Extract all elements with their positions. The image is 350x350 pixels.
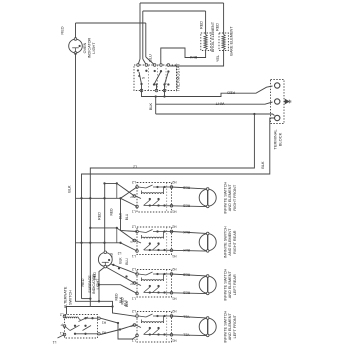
wires fan into RIGHT FRONT [105, 183, 135, 196]
svg-text:L2: L2 [118, 251, 122, 255]
pilot coil of RIGHT REAR switch [142, 237, 164, 238]
svg-text:BLK: BLK [183, 230, 190, 234]
terminals H2 H1 of LEFT REAR switch [170, 273, 173, 276]
infinite switch RIGHT FRONT [137, 183, 172, 213]
svg-text:L2: L2 [132, 309, 136, 313]
terminals H2 H1 of LEFT FRONT switch [170, 315, 173, 318]
terminal block [271, 80, 285, 124]
svg-text:BLK: BLK [261, 161, 265, 169]
terminal block terminals [275, 83, 280, 88]
wires BLK switch to element [172, 232, 207, 234]
svg-text:L1: L1 [60, 331, 64, 335]
svg-text:BLU: BLU [125, 213, 129, 220]
oven indicator light [69, 39, 83, 53]
svg-text:LEFT FRONT: LEFT FRONT [233, 314, 237, 338]
svg-text:H1: H1 [172, 339, 176, 343]
wires YEL switch to element [172, 316, 207, 318]
svg-text:RED: RED [182, 290, 190, 294]
svg-text:BROIL ELEMENT: BROIL ELEMENT [211, 21, 215, 52]
svg-text:L2: L2 [133, 165, 137, 169]
svg-text:INFINITE SWITCH: INFINITE SWITCH [223, 311, 227, 343]
svg-text:YEL: YEL [183, 332, 190, 336]
svg-text:RED: RED [110, 208, 114, 216]
svg-text:L1: L1 [132, 254, 136, 258]
svg-text:WHT: WHT [215, 102, 224, 106]
svg-text:BLU: BLU [125, 258, 129, 265]
switch contacts of RIGHT REAR [139, 232, 147, 233]
svg-text:L2: L2 [60, 313, 64, 317]
svg-text:RED: RED [182, 186, 190, 190]
svg-text:ALTERNATE: ALTERNATE [64, 286, 68, 308]
pilot coil of LEFT REAR switch [142, 280, 164, 281]
infinite switch LEFT REAR [137, 270, 172, 298]
wire bake to thermostat YEL [168, 50, 223, 67]
svg-text:RED: RED [227, 90, 235, 94]
svg-text:BLK: BLK [149, 102, 153, 110]
svg-text:YEL: YEL [183, 315, 190, 319]
surface element LEFT REAR [199, 276, 216, 293]
svg-text:L1: L1 [132, 210, 136, 214]
terminals L2 P L1 of RIGHT REAR switch [136, 230, 139, 233]
svg-text:H1: H1 [102, 321, 106, 325]
wires RED switch to element [172, 187, 207, 189]
svg-text:BLOCK: BLOCK [278, 132, 283, 146]
svg-text:H1: H1 [172, 297, 176, 301]
wire surface light down to bank4 area RED [99, 267, 105, 302]
wire top outer loop to bake element [140, 2, 224, 4]
svg-text:S: S [142, 76, 146, 79]
wires fan into RIGHT REAR [90, 228, 134, 241]
svg-text:RED: RED [182, 203, 190, 207]
wires RED switch to element [172, 274, 207, 276]
svg-text:OVEN: OVEN [83, 42, 87, 53]
surface element LEFT FRONT [199, 318, 216, 335]
surface element RIGHT REAR [199, 234, 216, 251]
svg-text:H2: H2 [172, 224, 176, 228]
wire RED thermostat to terminal block top [142, 86, 273, 97]
svg-text:RED: RED [182, 273, 190, 277]
svg-text:BLK: BLK [125, 300, 129, 307]
svg-text:P: P [130, 195, 133, 199]
wire lower bus via right side [156, 114, 275, 116]
wire BLK terminal block bottom to left bus [82, 118, 278, 299]
infinite switch RIGHT REAR [137, 227, 172, 255]
svg-text:RED: RED [115, 293, 119, 301]
svg-text:RIGHT FRONT: RIGHT FRONT [233, 184, 237, 211]
wire fan into thermostat top terminals [138, 59, 140, 65]
terminals H2 H1 of RIGHT FRONT switch [170, 186, 173, 189]
wire broil to thermostat BLU [161, 48, 206, 65]
terminals L2 P L1 of RIGHT FRONT switch [136, 186, 139, 189]
svg-text:INFINITE SWITCH: INFINITE SWITCH [223, 269, 227, 301]
wire oven indicator light to thermostat [76, 22, 146, 24]
svg-text:H2: H2 [172, 309, 176, 313]
wires fan into LEFT REAR [110, 264, 137, 275]
svg-text:P: P [60, 323, 63, 327]
terminals L2 P L1 of LEFT FRONT switch [136, 315, 139, 318]
svg-text:BLK: BLK [119, 257, 123, 264]
pilot coil of RIGHT FRONT switch [142, 193, 164, 194]
svg-text:BLK: BLK [67, 185, 71, 193]
surface indicator light [98, 253, 112, 267]
switch contacts of LEFT REAR [139, 274, 147, 275]
wires fan into LEFT FRONT [101, 318, 138, 339]
svg-text:BLU: BLU [190, 55, 198, 59]
svg-text:RED: RED [98, 212, 102, 220]
svg-text:INFINITE SWITCH: INFINITE SWITCH [223, 226, 227, 258]
svg-text:BLU: BLU [149, 54, 153, 62]
svg-text:L1: L1 [53, 340, 57, 344]
svg-text:LIGHT: LIGHT [92, 42, 96, 54]
infinite switch LEFT FRONT [137, 312, 172, 343]
svg-text:H2: H2 [102, 331, 106, 335]
switch contacts of RIGHT FRONT [139, 187, 147, 188]
svg-text:BAKE ELEMENT: BAKE ELEMENT [229, 26, 233, 56]
thermostat switch arms [139, 72, 142, 84]
wire from bank1 row down to RIGHT REAR L2 [121, 198, 138, 231]
svg-text:L2: L2 [132, 267, 136, 271]
svg-text:AND ELEMENT: AND ELEMENT [228, 313, 232, 341]
pilot coil of LEFT FRONT switch [142, 322, 164, 323]
thermostat [134, 65, 177, 91]
terminals L2 P L1 of LEFT REAR switch [136, 273, 139, 276]
svg-text:RIGHT REAR: RIGHT REAR [233, 230, 237, 254]
svg-text:H1: H1 [172, 254, 176, 258]
terminals H2 H1 of RIGHT REAR switch [170, 230, 173, 233]
ground symbol [284, 101, 285, 103]
staircase wire to alternate switch L2 [82, 298, 91, 300]
svg-text:L2: L2 [132, 224, 136, 228]
svg-text:INFINITE SWITCH: INFINITE SWITCH [223, 182, 227, 214]
svg-text:H1: H1 [172, 210, 176, 214]
wire alt switch L1 stub [58, 335, 65, 339]
svg-text:H2: H2 [172, 267, 176, 271]
bus RED down to surface light [104, 183, 106, 251]
switch contacts of LEFT FRONT [139, 316, 147, 317]
svg-text:AND ELEMENT: AND ELEMENT [228, 184, 232, 212]
svg-text:RED: RED [216, 23, 220, 31]
svg-text:RED: RED [60, 26, 65, 34]
wire WHT to terminal block middle [155, 97, 157, 115]
svg-text:RED: RED [121, 297, 125, 305]
wire top inner loop to broil element [143, 10, 206, 12]
surface element RIGHT FRONT [199, 189, 216, 206]
svg-text:LIGHT: LIGHT [96, 278, 100, 290]
svg-text:INDICATOR: INDICATOR [88, 37, 92, 58]
thermostat contact junctions [137, 69, 139, 71]
svg-text:RED: RED [199, 21, 203, 29]
alternate switch coil [67, 317, 79, 318]
svg-text:AND ELEMENT: AND ELEMENT [228, 228, 232, 256]
svg-text:SWITCH: SWITCH [68, 290, 72, 305]
svg-text:BLK: BLK [183, 248, 190, 252]
svg-text:THERMOSTAT: THERMOSTAT [176, 63, 181, 92]
svg-text:L2: L2 [132, 180, 136, 184]
bus from oven light down to bank4 staircase [76, 53, 138, 317]
svg-text:YEL: YEL [216, 55, 220, 62]
svg-text:H2: H2 [172, 180, 176, 184]
svg-text:AND ELEMENT: AND ELEMENT [228, 271, 232, 299]
svg-text:RED: RED [81, 278, 85, 286]
svg-text:LEFT REAR: LEFT REAR [233, 274, 237, 295]
svg-text:L1: L1 [132, 297, 136, 301]
svg-text:P: P [130, 239, 133, 243]
